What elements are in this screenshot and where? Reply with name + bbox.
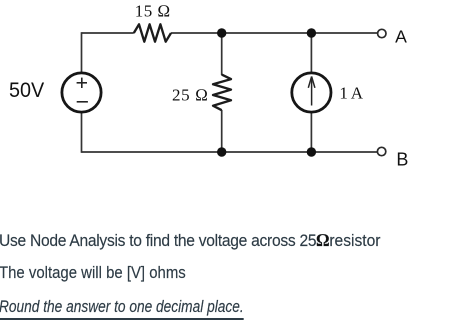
- svg-text:25 Ω: 25 Ω: [172, 85, 208, 104]
- svg-text:15 Ω: 15 Ω: [135, 1, 171, 20]
- svg-text:1 A: 1 A: [339, 83, 363, 102]
- svg-text:A: A: [395, 27, 407, 47]
- svg-text:50V: 50V: [9, 78, 45, 102]
- svg-text:B: B: [396, 150, 408, 170]
